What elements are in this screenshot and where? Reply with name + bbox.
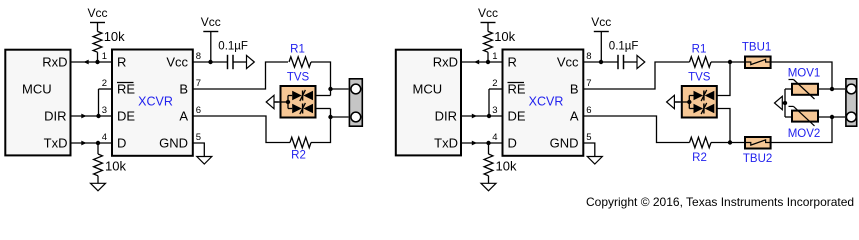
svg-text:3: 3 (492, 105, 497, 116)
earth triangle at MOV (775, 96, 783, 109)
svg-text:10k: 10k (104, 29, 125, 44)
wire pin 8 Vcc (left) (193, 60, 227, 64)
resistor 10k pull-up (left) (93, 29, 125, 62)
MCU box (left circuit) (5, 50, 70, 156)
svg-text:6: 6 (586, 105, 591, 116)
transceiver U1 XCVR box (right circuit) (503, 50, 584, 156)
earth triangle at TVS (left) (266, 95, 278, 108)
wire TVS lower pin (left) (317, 108, 331, 110)
svg-text:7: 7 (196, 78, 201, 89)
svg-text:MCU: MCU (22, 82, 52, 97)
svg-text:5: 5 (196, 132, 201, 143)
wire R2 to TBU2 (right) (711, 140, 744, 144)
svg-text:GND: GND (550, 136, 579, 151)
wire B pin 7 to R1 (right) (584, 62, 690, 89)
svg-text:MOV2: MOV2 (788, 128, 821, 140)
svg-text:2: 2 (492, 78, 497, 89)
ground symbol bottom (left) (91, 183, 106, 191)
wire TVS lower pin to R2 junction (right) (716, 109, 730, 143)
svg-text:Vcc: Vcc (478, 6, 498, 20)
ground symbol bottom (right) (481, 183, 496, 191)
wire TVS upper pin (left) (317, 95, 331, 97)
svg-text:TVS: TVS (287, 72, 310, 84)
ground symbol pin 5 (right) (587, 157, 602, 165)
svg-text:R1: R1 (290, 44, 305, 56)
TBU1 internal symbol (744, 59, 772, 64)
wire R2 to bus junction (left) (311, 109, 333, 143)
TVS label (left) (287, 72, 310, 84)
svg-text:4: 4 (102, 132, 107, 143)
capacitor 0.1uF (right) (609, 41, 639, 70)
svg-text:A: A (179, 109, 188, 124)
svg-text:Copyright © 2016, Texas Instru: Copyright © 2016, Texas Instruments Inco… (586, 195, 854, 209)
wire MOV commons to earth (782, 89, 791, 117)
pin numbers (right XCVR) (492, 51, 591, 143)
capacitor 0.1uF (left) (218, 41, 248, 70)
svg-text:5: 5 (586, 132, 591, 143)
svg-text:D: D (508, 136, 517, 151)
svg-text:3: 3 (102, 105, 107, 116)
svg-text:TxD: TxD (434, 136, 458, 151)
TVS label (right) (688, 72, 711, 84)
svg-text:XCVR: XCVR (138, 95, 173, 109)
wire MOV2 to connector (right) (819, 115, 845, 119)
wire TxD to D pin 4 (left) (71, 141, 113, 146)
svg-text:Vcc: Vcc (591, 15, 611, 29)
svg-text:7: 7 (586, 78, 591, 89)
svg-text:8: 8 (586, 51, 591, 62)
wire RxD to R pin 1 (right) (461, 60, 503, 65)
svg-text:B: B (570, 82, 579, 97)
Vcc supply symbol top (left) (87, 6, 107, 31)
svg-text:DIR: DIR (435, 109, 457, 124)
wire pin 8 Vcc (right) (583, 60, 617, 64)
wire junction to connector pin 2 (left) (331, 116, 349, 118)
svg-text:DE: DE (117, 109, 135, 124)
svg-text:DE: DE (508, 109, 526, 124)
wire A pin 6 to R2 (right) (584, 116, 690, 143)
svg-text:1: 1 (492, 51, 497, 62)
power-ground triangle at cap (right) (637, 55, 645, 68)
wire R1 to bus junction (left) (311, 62, 333, 96)
svg-text:2: 2 (102, 78, 107, 89)
svg-text:GND: GND (159, 136, 188, 151)
svg-text:TBU2: TBU2 (743, 153, 772, 165)
svg-text:Vcc: Vcc (201, 15, 221, 29)
wire TxD to D pin 4 (right) (461, 141, 503, 146)
svg-text:RxD: RxD (433, 55, 458, 70)
svg-text:0.1µF: 0.1µF (218, 41, 248, 53)
resistor R1 (left) (289, 44, 311, 68)
svg-text:DIR: DIR (44, 109, 66, 124)
svg-text:R1: R1 (692, 44, 707, 56)
connector J1 (right) (846, 79, 857, 126)
resistor 10k pull-down (right) (484, 143, 517, 183)
wire RE tie (right) (489, 89, 503, 116)
svg-text:XCVR: XCVR (529, 95, 564, 109)
svg-text:D: D (117, 136, 126, 151)
svg-text:Vcc: Vcc (557, 55, 579, 70)
resistor 10k pull-up (right) (484, 29, 516, 62)
TBU2 internal symbol (744, 140, 772, 145)
svg-text:RE: RE (508, 82, 526, 97)
copyright notice (586, 195, 854, 209)
svg-text:6: 6 (196, 105, 201, 116)
TBU2 box (743, 137, 772, 165)
wire DIR to DE pin 3 (right) (461, 114, 503, 119)
wire RE tie (left) (99, 89, 113, 116)
resistor R2 (right) (690, 137, 712, 164)
wire GND pin 5 (right) (583, 143, 595, 157)
Vcc supply symbol at pin 8 (right) (591, 15, 611, 62)
svg-text:8: 8 (196, 51, 201, 62)
wire RxD to R pin 1 (left) (71, 60, 113, 65)
TVS diode D1 box (left) (281, 86, 316, 118)
pin numbers (left XCVR) (102, 51, 201, 143)
TVS internal diodes (right) (675, 90, 715, 114)
MOV2 varistor (788, 106, 821, 140)
resistor R2 (left) (290, 137, 311, 161)
svg-text:RE: RE (117, 82, 135, 97)
resistor R1 (right) (690, 44, 712, 68)
svg-text:R2: R2 (692, 152, 707, 164)
TVS diode D1 box (right) (682, 86, 717, 118)
svg-text:10k: 10k (496, 158, 517, 173)
wire R1 to TBU1 (right) (711, 60, 744, 64)
wire TBU2 to MOV junction (772, 117, 833, 143)
svg-text:R2: R2 (291, 150, 306, 162)
power-ground triangle at cap (left) (247, 55, 255, 68)
wire GND pin 5 (left) (193, 143, 205, 157)
wire A pin 6 to R2 (left) (193, 116, 290, 143)
connector J1 (left) (349, 79, 362, 126)
svg-text:RxD: RxD (42, 55, 67, 70)
TVS internal diodes (left) (274, 90, 314, 114)
transceiver U1 XCVR box (left circuit) (112, 50, 193, 156)
svg-text:B: B (179, 82, 188, 97)
wire B pin 7 to R1 (left) (193, 62, 288, 89)
svg-text:TBU1: TBU1 (742, 42, 771, 54)
wire TBU1 to MOV junction (772, 62, 833, 89)
svg-text:0.1µF: 0.1µF (609, 41, 639, 53)
Vcc supply symbol top (right) (478, 6, 498, 31)
svg-text:R: R (117, 55, 126, 70)
svg-text:4: 4 (492, 132, 497, 143)
svg-text:MOV1: MOV1 (788, 68, 821, 80)
wire TVS upper pin to R1 junction (right) (716, 62, 730, 96)
wire MOV1 to connector (right) (819, 87, 845, 91)
svg-text:10k: 10k (105, 158, 126, 173)
ground symbol pin 5 (left) (197, 157, 212, 165)
svg-text:R: R (508, 55, 517, 70)
MOV1 varistor (788, 68, 821, 99)
wire DIR to DE pin 3 (left) (71, 114, 113, 119)
svg-text:Vcc: Vcc (87, 6, 107, 20)
svg-text:TxD: TxD (44, 136, 68, 151)
Vcc supply symbol at pin 8 (left) (201, 15, 221, 62)
TBU1 box (742, 42, 771, 68)
earth triangle at TVS (right) (667, 95, 680, 108)
svg-text:TVS: TVS (688, 72, 711, 84)
svg-text:A: A (570, 109, 579, 124)
svg-text:1: 1 (102, 51, 107, 62)
svg-text:10k: 10k (494, 29, 515, 44)
MCU box (right circuit) (396, 50, 461, 156)
svg-text:Vcc: Vcc (166, 55, 188, 70)
resistor 10k pull-down (left) (94, 143, 127, 183)
svg-text:MCU: MCU (413, 82, 443, 97)
wire junction to connector pin 1 (left) (331, 88, 349, 90)
